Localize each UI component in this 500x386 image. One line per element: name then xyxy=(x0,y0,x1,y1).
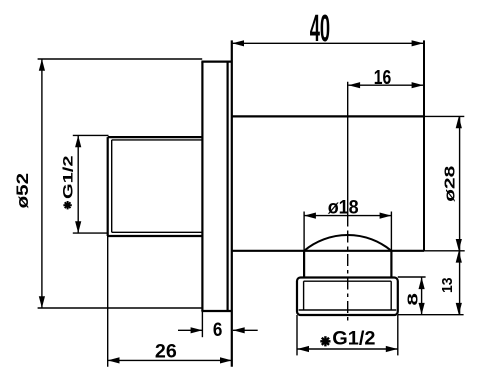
barrel body (top of right view) xyxy=(232,116,424,250)
spigot thread minor lines xyxy=(112,140,203,232)
svg-text:ø18: ø18 xyxy=(328,196,359,218)
wall plate flange (side view) xyxy=(201,62,231,311)
dimension 13 line xyxy=(459,251,461,315)
svg-text:8: 8 xyxy=(405,293,422,306)
nozzle side left xyxy=(303,251,305,278)
dimension Ø52 extension lines xyxy=(38,59,203,308)
dimension G1/2 (nut) extension lines xyxy=(297,315,398,355)
dimension 6 leaders xyxy=(178,329,202,331)
wall face line / common extension xyxy=(231,40,233,366)
dimension Ø28 line xyxy=(459,116,461,250)
svg-text:ø52: ø52 xyxy=(13,173,32,208)
svg-text:13: 13 xyxy=(440,277,456,293)
nozzle centerline (dashed lower part) xyxy=(347,231,349,323)
barrel bottom extension to Ø28/13 xyxy=(424,250,465,252)
nozzle side right xyxy=(390,251,392,278)
dimension 26 line xyxy=(108,359,232,361)
dimension G1/2 (spigot) extension lines xyxy=(73,135,109,233)
svg-text:16: 16 xyxy=(374,66,392,89)
barrel top extension to Ø28 xyxy=(424,115,464,117)
star symbol (spigot label) xyxy=(63,201,71,209)
barrel end edge / extension up to 40-dim xyxy=(423,40,425,250)
dimension 16 extension line (nozzle axis, upper solid part) xyxy=(347,82,349,227)
dimension Ø52 line xyxy=(41,59,43,308)
nozzle intersection arc xyxy=(304,235,391,251)
plate inner rim line xyxy=(227,63,229,311)
dimension 16 line xyxy=(348,84,423,86)
svg-text:G1/2: G1/2 xyxy=(61,156,76,200)
hose nut inner bevel lines xyxy=(299,281,397,310)
dimension 8 extension line top xyxy=(398,276,426,278)
svg-text:6: 6 xyxy=(213,319,223,341)
svg-text:26: 26 xyxy=(155,341,177,363)
dimension Ø18 line xyxy=(304,215,391,217)
svg-text:ø28: ø28 xyxy=(441,166,458,202)
star symbol (nut label) xyxy=(320,336,330,346)
plate front face extension for 6 xyxy=(201,311,203,337)
dimension 26 extension line xyxy=(107,236,109,367)
dimension 8 line xyxy=(421,277,423,314)
shared extension line bottom (8 and 13) xyxy=(398,314,464,316)
svg-text:G1/2: G1/2 xyxy=(332,327,375,349)
dimension 40 line xyxy=(232,42,424,44)
threaded spigot G1/2 (side view, outer profile) xyxy=(108,137,203,236)
dimension G1/2 (nut) line xyxy=(297,348,398,350)
dimension Ø18 extension lines xyxy=(304,212,391,251)
svg-text:40: 40 xyxy=(310,8,330,50)
hose nut outer xyxy=(297,278,398,316)
dimension G1/2 (spigot) line xyxy=(77,135,79,233)
